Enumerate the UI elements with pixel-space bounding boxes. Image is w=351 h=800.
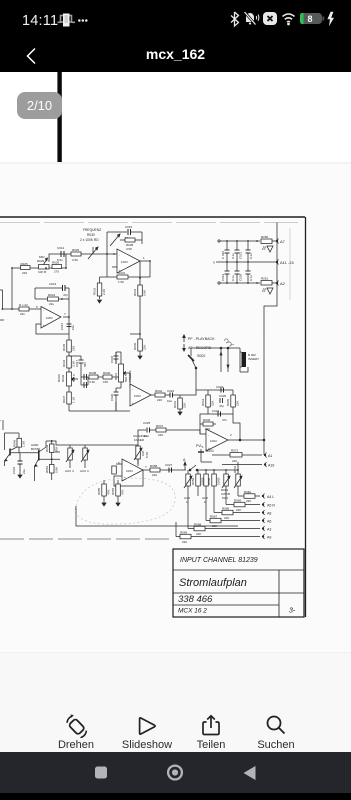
capacitor column lower 2 — [231, 262, 243, 283]
bottom wire y=411 — [69, 410, 130, 412]
svg-text:R066: R066 — [222, 507, 230, 511]
AUX2 pot — [202, 470, 208, 504]
svg-text:R038: R038 — [89, 371, 97, 375]
resistor R046 — [200, 418, 216, 431]
resistor R058 — [150, 464, 160, 477]
switch contacts out — [189, 465, 222, 471]
svg-text:R058: R058 — [150, 464, 158, 468]
svg-text:10: 10 — [262, 289, 266, 293]
svg-text:A7: A7 — [280, 239, 286, 244]
svg-text:22K: 22K — [72, 346, 76, 351]
svg-text:A11 -15: A11 -15 — [280, 260, 294, 265]
svg-text:47p: 47p — [219, 404, 224, 408]
resistor R040 — [103, 371, 119, 384]
svg-text:R040: R040 — [103, 371, 111, 375]
svg-text:1.5K: 1.5K — [22, 441, 26, 447]
svg-text:A5 R: A5 R — [267, 504, 275, 508]
svg-text:Stromlaufplan: Stromlaufplan — [179, 577, 247, 589]
dashed ellipse pencil — [75, 478, 175, 524]
svg-text:R056: R056 — [111, 487, 115, 495]
wire mid row y=268 — [12, 267, 66, 269]
capacitor C025 — [143, 421, 156, 438]
capacitor C020b — [110, 388, 119, 402]
op-amp U2 1003 — [113, 249, 145, 273]
svg-text:A16: A16 — [268, 464, 274, 468]
sim/app icon — [56, 10, 96, 30]
svg-text:FREQUENZ: FREQUENZ — [83, 228, 101, 232]
bluetooth — [231, 12, 239, 26]
svg-text:R060: R060 — [207, 477, 211, 485]
potentiometer R030b wiper — [110, 234, 120, 246]
svg-text:R029: R029 — [37, 259, 45, 263]
svg-text:22u: 22u — [49, 302, 54, 306]
capacitor C026s — [219, 394, 227, 408]
wire C023 row — [196, 389, 233, 391]
right icons — [230, 10, 338, 28]
black bar top-left — [57, 72, 61, 162]
wire y=414 — [208, 413, 233, 415]
svg-text:AUX 3: AUX 3 — [80, 469, 89, 473]
CHANNEL FADER pot — [133, 434, 149, 466]
cascade row A8 — [214, 496, 271, 520]
resistor R045 vertical — [226, 390, 240, 414]
svg-text:A6: A6 — [267, 520, 271, 524]
svg-text:-: - — [132, 387, 133, 391]
resistor R059 vertical — [191, 470, 205, 496]
svg-text:22K: 22K — [182, 540, 187, 544]
svg-text:C017: C017 — [75, 359, 79, 367]
svg-text:1004: 1004 — [126, 469, 133, 473]
svg-text:R072: R072 — [231, 449, 239, 453]
resistor R057 to A1 — [212, 449, 262, 464]
svg-text:R08a: R08a — [244, 490, 252, 494]
svg-text:C022: C022 — [167, 389, 175, 393]
svg-text:R046: R046 — [203, 418, 211, 422]
title bar — [0, 38, 351, 72]
svg-text:22K: 22K — [246, 499, 251, 503]
resistor R049 vertical — [45, 440, 59, 480]
wire to treble opamp — [128, 372, 130, 374]
resistor R064 vertical — [233, 462, 242, 496]
wire fader rail — [118, 430, 146, 445]
svg-text:R064: R064 — [233, 465, 237, 473]
svg-text:PAN: PAN — [222, 496, 228, 500]
status bar — [0, 0, 351, 38]
svg-text:R024: R024 — [48, 293, 56, 297]
svg-text:R032: R032 — [93, 287, 97, 295]
svg-text:22u: 22u — [22, 469, 26, 474]
svg-text:R055: R055 — [97, 487, 101, 495]
svg-text:A9: A9 — [267, 536, 271, 540]
junction dots U2 — [106, 253, 151, 335]
svg-text:10K B: 10K B — [38, 270, 46, 274]
connector A7 — [276, 239, 285, 245]
connector A16 — [222, 462, 274, 468]
svg-text:22K: 22K — [211, 401, 215, 406]
resistor R065 vertical — [97, 480, 111, 506]
svg-text:0.1u: 0.1u — [249, 253, 253, 259]
svg-text:47u: 47u — [222, 418, 227, 422]
svg-text:R049: R049 — [45, 444, 49, 452]
left edge stubs — [0, 317, 8, 430]
AUX4 pot — [65, 445, 74, 473]
junction dots rails — [226, 240, 258, 284]
resistor R051 — [261, 277, 276, 292]
wires treble joins — [116, 351, 121, 353]
connector A1 — [264, 453, 272, 459]
resistor R066 vertical — [111, 480, 125, 506]
op-amp U4 100A — [202, 429, 232, 451]
Drehen icon — [64, 714, 88, 738]
svg-text:R042: R042 — [155, 389, 163, 393]
svg-text:C021: C021 — [239, 251, 243, 259]
svg-text:A1: A1 — [268, 454, 272, 458]
PAN pot R063 — [221, 470, 230, 500]
svg-text:+: + — [132, 401, 134, 405]
svg-text:R035: R035 — [62, 343, 66, 351]
Suchen icon — [265, 714, 287, 736]
resistor R060 vertical — [207, 470, 221, 496]
capacitor C014 — [57, 246, 65, 262]
resistor R044 vertical — [201, 390, 215, 414]
feedback verticals — [34, 288, 36, 299]
resistor R025 — [21, 262, 31, 275]
svg-text:R052: R052 — [45, 465, 49, 473]
wire vertical x=66 — [65, 254, 67, 268]
svg-text:100A: 100A — [210, 439, 217, 443]
wires U5 — [114, 459, 143, 486]
svg-text:68n: 68n — [83, 362, 87, 367]
svg-text:R068: R068 — [194, 523, 202, 527]
svg-text:5.6K: 5.6K — [145, 452, 149, 458]
switch contacts vertical — [220, 347, 229, 372]
svg-text:10KB: 10KB — [217, 478, 221, 485]
svg-text:R x 22: R x 22 — [19, 303, 28, 307]
svg-text:22K: 22K — [143, 345, 147, 350]
svg-text:R025: R025 — [21, 262, 29, 266]
svg-text:C015: C015 — [125, 225, 133, 229]
resistor R052 vertical — [45, 465, 59, 474]
svg-text:220: 220 — [157, 398, 162, 402]
capacitor C019b treble top — [110, 352, 119, 364]
svg-text:R059: R059 — [191, 477, 195, 485]
svg-text:INSERT: INSERT — [248, 357, 259, 361]
cascade row A4 — [238, 490, 274, 503]
capacitor C023 — [216, 385, 224, 393]
svg-text:AUX 4: AUX 4 — [65, 469, 74, 473]
nav bar — [0, 752, 351, 800]
svg-text:47p: 47p — [63, 293, 68, 297]
capacitor C022 — [167, 389, 180, 403]
op-amp U3 1003 treble — [130, 384, 151, 406]
svg-text:R067: R067 — [210, 515, 218, 519]
svg-text:22K: 22K — [236, 508, 241, 512]
svg-text:220: 220 — [22, 271, 27, 275]
capacitor pair small lower — [81, 377, 88, 388]
switch S002 — [188, 354, 205, 369]
wires fold into 100A — [200, 424, 206, 434]
svg-text:6.8K: 6.8K — [143, 290, 147, 296]
svg-text:R033: R033 — [133, 288, 137, 296]
svg-text:A2: A2 — [280, 281, 286, 286]
svg-text:R051: R051 — [261, 277, 269, 281]
svg-text:C029: C029 — [239, 273, 243, 281]
AUX1 pot — [184, 470, 192, 504]
resistor R023 input — [2, 303, 41, 316]
svg-text:S002: S002 — [197, 354, 205, 358]
svg-text:R026: R026 — [52, 261, 60, 265]
svg-text:220: 220 — [158, 433, 163, 437]
resistor R037 vertical — [62, 392, 76, 404]
power rail mid y=262 — [216, 261, 276, 263]
scan paper tint — [0, 164, 351, 652]
capacitor column C021 — [231, 241, 243, 262]
svg-text:C019: C019 — [221, 273, 225, 281]
svg-text:. . .: . . . — [4, 317, 8, 321]
resistor R0x feedback vert — [112, 466, 117, 474]
resistor R027 — [120, 238, 142, 251]
svg-text:R047: R047 — [156, 424, 164, 428]
svg-text:-: - — [43, 308, 44, 312]
paper fold line — [289, 228, 291, 300]
svg-text:22n: 22n — [20, 312, 25, 316]
svg-text:0.1u: 0.1u — [249, 275, 253, 281]
svg-text:338 466: 338 466 — [178, 594, 213, 605]
frame bottom dashed line — [0, 538, 173, 540]
svg-text:+: + — [124, 475, 126, 479]
svg-text:C023: C023 — [216, 385, 224, 389]
svg-text:-: - — [208, 433, 209, 437]
Slideshow icon — [136, 715, 158, 737]
resistor R047 — [156, 424, 200, 437]
svg-text:PF - PLAYBACK: PF - PLAYBACK — [188, 337, 215, 341]
wire aux rail — [70, 444, 118, 446]
wire across transistor row — [39, 441, 70, 459]
wire jack to bus — [263, 340, 265, 455]
svg-text:-: - — [124, 463, 125, 467]
wire top rail aux — [222, 469, 238, 471]
svg-text:FADER: FADER — [134, 438, 145, 442]
photo / schematic area — [0, 72, 351, 652]
svg-text:C016: C016 — [60, 322, 64, 330]
svg-text:20K: 20K — [55, 447, 59, 452]
svg-text:C018: C018 — [110, 355, 114, 363]
wire switch top rail — [191, 347, 240, 349]
connector A11-15 — [276, 260, 294, 266]
svg-text:2.5K: 2.5K — [72, 258, 78, 262]
potentiometer TREBLE — [114, 364, 132, 382]
svg-text:6.8K: 6.8K — [55, 467, 59, 473]
svg-text:A4 L: A4 L — [267, 495, 274, 499]
wire op-amp out — [63, 316, 69, 318]
op-amp U1 1003 — [41, 307, 66, 329]
capacitor C027 — [165, 463, 173, 473]
svg-text:10u: 10u — [144, 434, 149, 438]
svg-text:MCX 16 2: MCX 16 2 — [178, 608, 207, 615]
svg-text:C026: C026 — [219, 394, 227, 398]
capacitor column C019 lower — [221, 262, 230, 283]
svg-text:1.5K: 1.5K — [118, 280, 124, 284]
wire U4 out to bus — [228, 439, 264, 441]
svg-text:C027: C027 — [165, 463, 173, 467]
op-amp U5 1004 — [118, 459, 147, 481]
svg-text:R025: R025 — [72, 248, 80, 252]
svg-text:0.1u: 0.1u — [231, 275, 235, 281]
battery — [300, 13, 324, 24]
svg-text:1003: 1003 — [121, 260, 128, 264]
long wire y=447 channel — [0, 420, 19, 450]
resistor R035 vertical — [62, 340, 76, 352]
capacitor C024 — [212, 409, 227, 422]
cascade row A9 — [176, 522, 271, 544]
A arrow — [183, 458, 186, 470]
svg-text:1.1K: 1.1K — [72, 397, 76, 403]
PF/AF arrows and text — [183, 335, 215, 351]
AUX3 pot — [80, 445, 89, 473]
svg-text:47K: 47K — [107, 490, 111, 495]
resistor R036 vertical — [62, 356, 76, 368]
svg-text:R046: R046 — [13, 439, 17, 447]
svg-text:R043: R043 — [173, 400, 177, 408]
resistor R043 vertical — [173, 395, 187, 415]
capacitor pair small — [81, 374, 88, 380]
long wire y=447 to fader — [55, 451, 60, 453]
resistor R032 vertical — [93, 277, 107, 303]
svg-text:R030: R030 — [87, 233, 95, 237]
power rail top y=241 — [220, 240, 260, 242]
capacitor C016 on opamp leg — [60, 322, 75, 330]
svg-text:10u: 10u — [71, 325, 75, 330]
svg-text:+: + — [43, 323, 45, 327]
capacitor C015 — [107, 225, 142, 240]
potentiometer R030 wiper — [88, 247, 98, 259]
text FREQUENZ R030 2x100KRD — [80, 228, 101, 242]
transistor Q2 G060 BC560 — [31, 441, 46, 481]
svg-text:47K: 47K — [121, 490, 125, 495]
svg-text:R039: R039 — [61, 374, 65, 382]
capacitor column 0.1u — [246, 241, 254, 262]
Teilen icon — [200, 714, 222, 737]
resistor R038 — [89, 371, 103, 384]
svg-text:R035: R035 — [133, 342, 137, 350]
wifi — [283, 14, 295, 25]
svg-text:0.1u: 0.1u — [231, 253, 235, 259]
potentiometer R029 MID — [37, 255, 49, 274]
vertical chain x=69 from opamp out — [68, 317, 70, 411]
frame inner dashed line — [0, 222, 298, 224]
svg-text:270: 270 — [54, 270, 59, 274]
title block — [173, 549, 304, 617]
svg-text:C026: C026 — [12, 466, 16, 474]
resistor R031 — [100, 271, 151, 284]
svg-text:3-: 3- — [289, 608, 296, 615]
svg-text:C014: C014 — [57, 246, 65, 250]
resistor R026 — [52, 261, 62, 274]
capacitor column C020 — [221, 241, 230, 262]
svg-text:R069: R069 — [180, 531, 188, 535]
svg-text:2.2K: 2.2K — [102, 289, 106, 295]
svg-text:C025: C025 — [143, 421, 151, 425]
resistor R042 — [155, 389, 165, 402]
wire U3 out — [151, 394, 170, 396]
capacitor column lower 3 — [246, 262, 254, 283]
svg-text:INPUT CHANNEL 81239: INPUT CHANNEL 81239 — [180, 557, 258, 564]
jack B002 INSERT — [240, 348, 259, 372]
page chip — [17, 92, 62, 119]
connector A2 — [276, 281, 285, 287]
svg-text:R041: R041 — [114, 372, 118, 380]
svg-text:R045: R045 — [226, 398, 230, 406]
svg-text:22K: 22K — [183, 403, 187, 408]
svg-text:3.5K: 3.5K — [126, 247, 132, 251]
cascade row A5 — [226, 496, 275, 512]
svg-text:22K: 22K — [212, 524, 217, 528]
wire plus input drop — [36, 324, 69, 334]
svg-text:22K: 22K — [196, 532, 201, 536]
svg-text:R050: R050 — [261, 235, 269, 239]
resistor R024 — [35, 293, 69, 306]
resistor R046 vertical — [13, 433, 26, 453]
svg-text:R044: R044 — [201, 398, 205, 406]
cascade row A3 — [188, 496, 271, 536]
svg-text:1003: 1003 — [134, 394, 141, 398]
potentiometer BASS R039 — [57, 372, 78, 386]
power rail bottom y=283 — [220, 282, 260, 284]
ground triangle 2 — [262, 288, 273, 294]
svg-text:A3: A3 — [267, 528, 271, 532]
svg-text:10u: 10u — [167, 399, 172, 403]
svg-text:C013: C013 — [49, 282, 57, 286]
x box — [263, 12, 277, 25]
wire stub at x130 y334 — [130, 333, 140, 335]
pencil scribble — [224, 339, 234, 346]
capacitor C013 — [35, 282, 69, 297]
resistor R033 vertical — [133, 261, 147, 334]
frame right border — [305, 217, 307, 617]
svg-text:R036: R036 — [62, 359, 66, 367]
svg-text:R031: R031 — [118, 271, 126, 275]
wire U4 feedback — [233, 414, 240, 440]
svg-text:R037: R037 — [62, 395, 66, 403]
bell muted — [245, 12, 259, 25]
svg-text:22K: 22K — [232, 459, 237, 463]
PVL switch S001 — [196, 444, 214, 462]
bolt — [327, 12, 334, 26]
junction dots — [2, 267, 70, 318]
svg-text:-: - — [119, 253, 120, 257]
resistor R028 — [71, 248, 81, 262]
svg-text:2 x 100K RD: 2 x 100K RD — [80, 238, 99, 242]
svg-text:C 020: C 020 — [221, 251, 225, 259]
svg-text:C020: C020 — [110, 393, 114, 401]
wire vertical left x=8 — [11, 268, 13, 309]
svg-text:10: 10 — [262, 247, 266, 251]
svg-text:22K: 22K — [224, 516, 229, 520]
wire top row y=254 — [49, 254, 112, 262]
svg-text:220: 220 — [152, 473, 157, 477]
ground triangle 1 — [262, 246, 273, 252]
svg-text:1003: 1003 — [46, 316, 53, 320]
svg-text:S001: S001 — [206, 449, 214, 453]
cascade row A6 — [206, 496, 271, 528]
svg-text:PVL: PVL — [196, 444, 203, 448]
resistor R034 vertical — [133, 334, 147, 359]
svg-text:3.3K: 3.3K — [89, 380, 95, 384]
frame top border — [0, 216, 305, 218]
wire to switch — [180, 368, 196, 395]
svg-text:22K: 22K — [236, 401, 240, 406]
transistor Q1 left — [5, 446, 39, 466]
